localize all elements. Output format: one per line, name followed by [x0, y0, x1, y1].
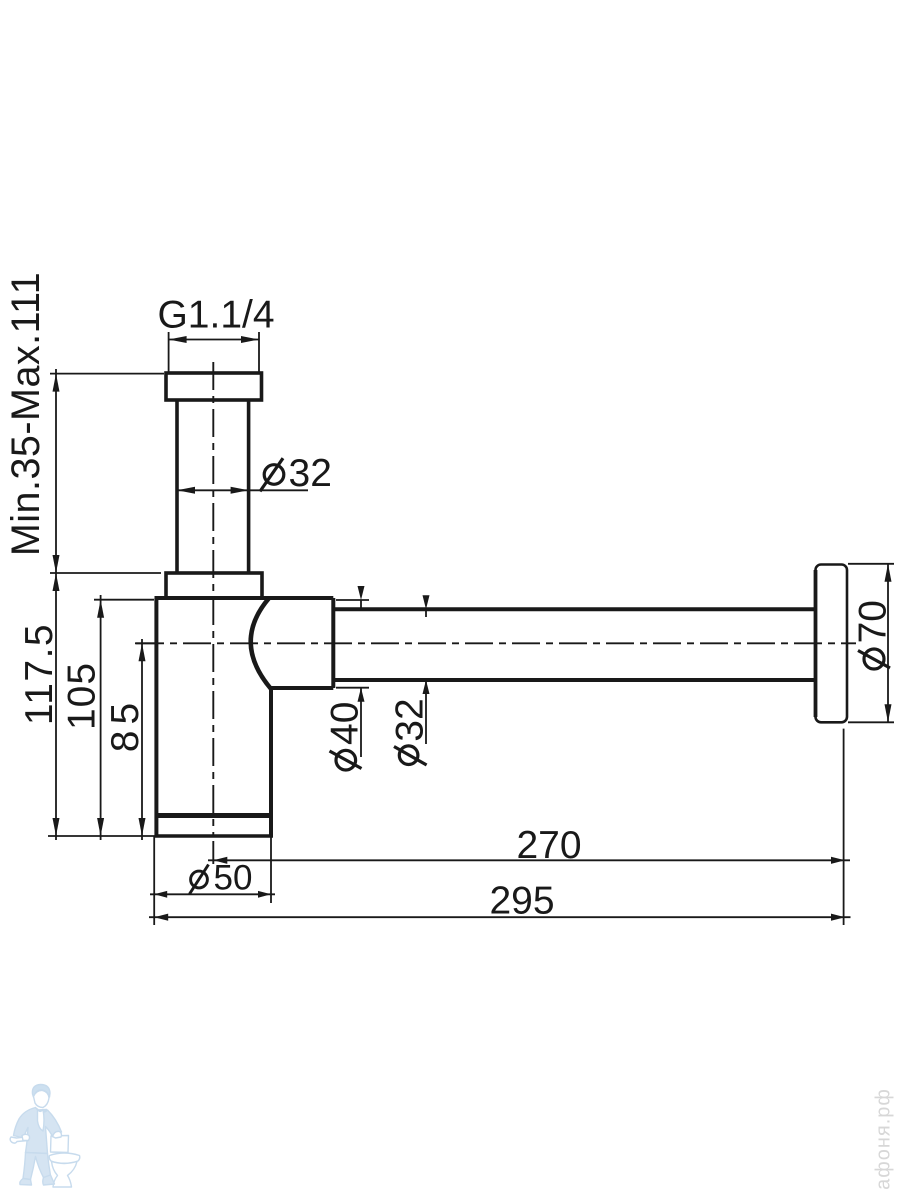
elbow nut right edge: [331, 598, 335, 688]
117.5 arrows: [53, 573, 60, 591]
elbow nut bottom edge: [271, 686, 333, 690]
dia symbol of dia32 pipe: [394, 746, 427, 765]
plumber left shoe: [20, 1179, 32, 1186]
svg-text:85: 85: [104, 697, 147, 752]
dimension linework: [48, 332, 894, 925]
body bottom inner thick line: [156, 813, 271, 818]
svg-text:105: 105: [61, 662, 104, 730]
svg-text:50: 50: [214, 859, 253, 898]
dia50 arrows: [154, 891, 167, 898]
Min-Max arrows: [53, 374, 60, 392]
plumber shirt front: [38, 1109, 45, 1131]
dim G1.1/4 line: [169, 339, 259, 341]
toilet bowl body and base: [52, 1162, 78, 1188]
plumber right hand: [22, 1134, 30, 1140]
svg-text:32: 32: [289, 452, 332, 495]
centerlines: [136, 362, 856, 864]
plumber bow tie: [38, 1110, 47, 1114]
dia50 right extension: [270, 836, 272, 903]
dim 295 line: [149, 916, 851, 918]
dia40 arrows: [358, 586, 365, 600]
body right wall: [269, 689, 273, 836]
svg-text:270: 270: [516, 824, 581, 867]
dim 105 line: [100, 595, 102, 840]
wall flange left edge emphasis: [814, 570, 818, 717]
G1.1/4 arrows: [169, 336, 187, 343]
dia50 left extension: [153, 836, 155, 925]
body left wall: [154, 598, 158, 836]
dim 85 line: [141, 639, 143, 840]
dim 270 line: [208, 859, 850, 861]
dim dia32 pipe arrow stems: [425, 609, 427, 617]
plumber hair: [32, 1085, 50, 1098]
dia32 tube arrows: [177, 487, 195, 494]
plumber right shoe: [43, 1175, 55, 1185]
wall flange: [816, 565, 848, 723]
arrowheads: [53, 336, 892, 921]
left dimension line x56: [55, 369, 57, 840]
bottom nut: [166, 573, 262, 598]
dia32 pipe arrows: [423, 595, 430, 609]
toilet bowl rim: [49, 1153, 80, 1163]
plumber face: [34, 1090, 50, 1107]
dim 105 top extension: [94, 599, 154, 601]
dia symbol of dia32 tube: [260, 458, 284, 491]
85 arrows: [139, 643, 146, 661]
flange right extension: [843, 729, 845, 925]
watermark plumber logo: [10, 1085, 80, 1188]
horizontal centerline of outlet pipe: [136, 642, 856, 644]
body bottom edge: [155, 834, 274, 838]
dim dia70 extensions: [848, 563, 894, 565]
dim dia50 line: [150, 893, 275, 895]
shared extension at bottom nut top: [50, 572, 161, 574]
dia70 arrows: [885, 564, 892, 582]
plumber wrench: [10, 1137, 28, 1144]
dim dia70 line: [887, 564, 889, 723]
295 arrows: [154, 914, 168, 921]
svg-text:295: 295: [489, 880, 554, 923]
dim Min.35-Max.111 top extension: [50, 373, 164, 375]
plumber legs: [23, 1153, 51, 1180]
elbow intersection curve: [251, 599, 272, 690]
dim dia32 tube line: [177, 489, 308, 491]
bottom extension line at body bottom: [48, 835, 156, 837]
dim dia40 arrow stems: [360, 600, 362, 609]
dim G1.1/4 extension lines: [168, 332, 170, 372]
body and elbow top edge: [155, 596, 334, 600]
dim dia40 bottom extension: [336, 687, 369, 689]
plumber jacket: [14, 1108, 62, 1154]
outlet pipe bottom wall: [333, 678, 817, 682]
inlet tube left wall: [175, 400, 179, 573]
svg-text:32: 32: [389, 698, 432, 741]
inlet tube right wall: [247, 400, 251, 573]
top nut: [166, 373, 262, 400]
dia symbol of dia50: [190, 865, 209, 895]
svg-text:G1.1/4: G1.1/4: [157, 294, 274, 337]
svg-text:70: 70: [852, 600, 895, 643]
svg-text:Min.35-Max.111: Min.35-Max.111: [4, 272, 48, 556]
svg-text:афоня.рф: афоня.рф: [873, 1088, 895, 1190]
dia symbol of dia40: [330, 750, 362, 770]
105 arrows: [97, 600, 104, 618]
outlet pipe top wall: [333, 607, 817, 611]
dim dia40 top extension: [336, 599, 369, 601]
svg-text:117.5: 117.5: [18, 623, 61, 725]
270 arrows: [213, 857, 227, 864]
dim 85 top extension: [135, 642, 158, 644]
toilet tank: [51, 1136, 69, 1153]
vertical centerline of trap: [212, 362, 214, 836]
svg-text:40: 40: [324, 702, 367, 745]
dia symbol of dia70: [858, 649, 890, 669]
plumber left hand on tank: [53, 1131, 62, 1138]
